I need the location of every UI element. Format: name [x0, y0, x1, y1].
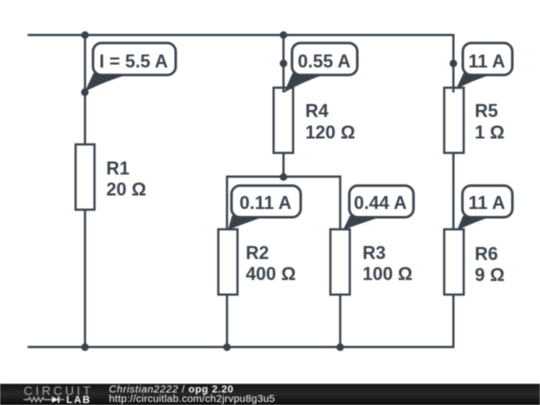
svg-text:11 A: 11 A: [468, 52, 505, 72]
callout tail for 11 A (R5): [456, 73, 494, 89]
callout box 11 A (R5): [463, 43, 513, 75]
svg-text:R1: R1: [106, 158, 129, 178]
callout box 0.55 A: [292, 43, 357, 75]
callout tail for 0.11 A: [228, 216, 267, 231]
svg-text:0.44 A: 0.44 A: [354, 193, 407, 213]
node: top-left junction: [81, 31, 89, 39]
svg-text:0.55 A: 0.55 A: [298, 52, 351, 72]
svg-text:http://circuitlab.com/ch2jrvpu: http://circuitlab.com/ch2jrvpu8g3u5: [109, 394, 275, 405]
logo symbol row: lead wire and resistor zigzag: [24, 397, 52, 401]
svg-text:1 Ω: 1 Ω: [475, 122, 505, 142]
node: probe point on left branch: [81, 88, 89, 96]
resistor R2: [218, 229, 295, 294]
logo diode: [52, 396, 65, 402]
callout box 0.44 A: [349, 186, 413, 218]
wire: mid rail with drops to R2 and R3: [227, 177, 340, 230]
wire: top rail with right branch corner down to R5 (stub into box): [29, 35, 454, 93]
svg-text:R5: R5: [475, 101, 498, 121]
svg-text:R6: R6: [475, 244, 498, 264]
svg-text:100 Ω: 100 Ω: [363, 264, 413, 284]
wire: middle branch above R4 (stub into box): [282, 35, 284, 93]
node: bottom-left junction: [81, 343, 89, 351]
node: probe point above R5: [450, 60, 458, 68]
wire: below R3: [339, 295, 341, 347]
svg-text:R3: R3: [363, 243, 386, 263]
resistor R3: [330, 229, 412, 294]
resistor R5: [444, 88, 504, 153]
svg-text:9 Ω: 9 Ω: [475, 265, 505, 285]
stub of wire inside R4: [282, 88, 284, 93]
svg-text:R4: R4: [305, 101, 329, 121]
callout tail for I = 5.5 A: [85, 73, 131, 92]
svg-text:LAB: LAB: [66, 395, 91, 405]
callout box 11 A (R6): [462, 186, 512, 218]
svg-text:0.11 A: 0.11 A: [240, 193, 292, 213]
callout box 0.11 A: [232, 186, 301, 218]
wire: right branch below R6 with corner onto bottom rail: [29, 295, 454, 347]
wire: left branch below R1: [84, 210, 86, 347]
svg-text:R2: R2: [246, 243, 269, 263]
resistor R6: [444, 229, 504, 294]
svg-text:400 Ω: 400 Ω: [246, 264, 296, 284]
node: probe point above R4: [280, 60, 288, 68]
svg-text:120 Ω: 120 Ω: [305, 122, 355, 142]
node: top-middle junction: [280, 31, 288, 39]
svg-text:I = 5.5 A: I = 5.5 A: [99, 52, 168, 72]
wire: left branch above R1: [84, 35, 86, 144]
resistor R1: [76, 144, 147, 209]
svg-text:11 A: 11 A: [468, 193, 505, 213]
callout tail for 0.44 A: [343, 216, 384, 231]
node: bottom R2 junction: [223, 343, 231, 351]
node: bottom R3 junction: [336, 343, 344, 351]
wire: below R2: [226, 295, 228, 347]
callout box I = 5.5 A: [93, 43, 176, 75]
wire: middle branch below R4 to mid rail: [282, 153, 284, 177]
node: mid rail junction: [280, 173, 288, 181]
callout tail for 0.55 A: [284, 73, 327, 93]
stub of wire inside R5: [452, 88, 454, 93]
callout tail for 11 A (R6): [457, 216, 493, 231]
wire: right branch between R5 and R6: [452, 153, 454, 229]
resistor R4: [274, 88, 356, 153]
svg-text:20 Ω: 20 Ω: [106, 179, 146, 199]
